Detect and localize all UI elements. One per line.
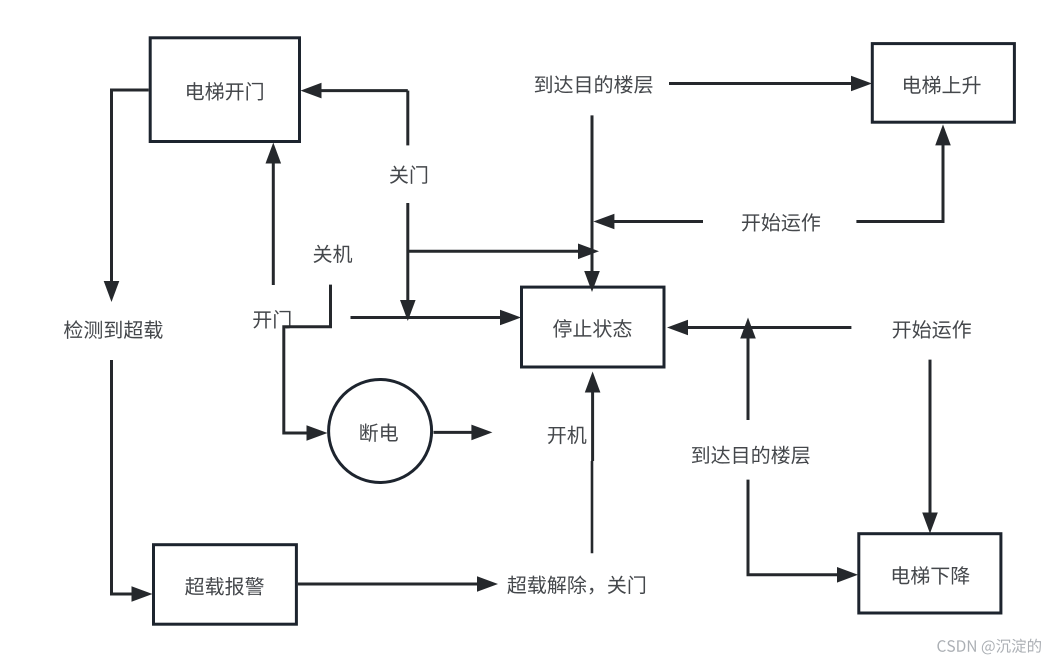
label 超载解除，关门 [507,575,645,594]
arrow 电梯开门 to 检测到超载 (down) [112,90,149,283]
arrow 到达目的楼层 bottom up to junction [747,337,750,421]
label 检测到超载 [64,320,163,339]
arrow 开机 up into 停止状态 bottom [591,461,594,553]
arrow 到达目的楼层 bottom to 电梯下降 [748,480,838,575]
state box 电梯开门 [150,38,299,142]
label 断电 [360,423,398,442]
state box 停止状态 [522,287,665,367]
arrow 检测到超载 to 超载报警 [112,360,134,594]
label 电梯开门 [187,82,263,101]
label 停止状态 [553,319,632,337]
watermark CSDN @沉淀的 [937,639,1041,655]
label 电梯下降 [893,566,970,584]
label 开始运作 top [742,213,820,232]
arrow 超载报警 out to 超载解除 [298,583,479,586]
arrow 关门 into 电梯开门 (left) upper segment [320,89,408,92]
label 超载报警 [185,577,264,595]
arrow branch to vertical line (right) at y=251 [408,250,580,253]
arrow 开始运作 top to vertical line (left) [612,220,703,223]
arrow 开门 junction to 停止状态 (right) [351,316,503,319]
arrow 到达目的楼层 to 电梯上升 [669,82,852,85]
arrow 关机 to 断电 [284,285,331,433]
arrow 开始运作 bottom into 停止状态 right [686,326,851,329]
label 开门 [253,310,290,329]
arrow 到达目的楼层 down into 停止状态 top [591,115,594,273]
label 关门 [390,165,427,183]
state circle 断电 [329,380,432,483]
state box 电梯上升 [872,44,1014,123]
state box 电梯下降 [859,534,1001,613]
label 开机 [548,426,587,444]
label 关机 [313,245,352,263]
arrow 关门 line lower segment (down into junction) [406,203,409,302]
arrow 开始运作 down into 电梯下降 top [929,360,932,515]
label 到达目的楼层 top [535,75,653,94]
label 开始运作 bottom [893,320,971,339]
label 电梯上升 [904,76,981,94]
arrow 断电 out (right) [434,431,474,434]
arrow 开始运作 top to 电梯上升 bottom [856,143,943,221]
label 到达目的楼层 bottom [692,446,810,465]
state box 超载报警 [154,545,297,625]
arrow 开门 up into 电梯开门 bottom [272,162,275,286]
